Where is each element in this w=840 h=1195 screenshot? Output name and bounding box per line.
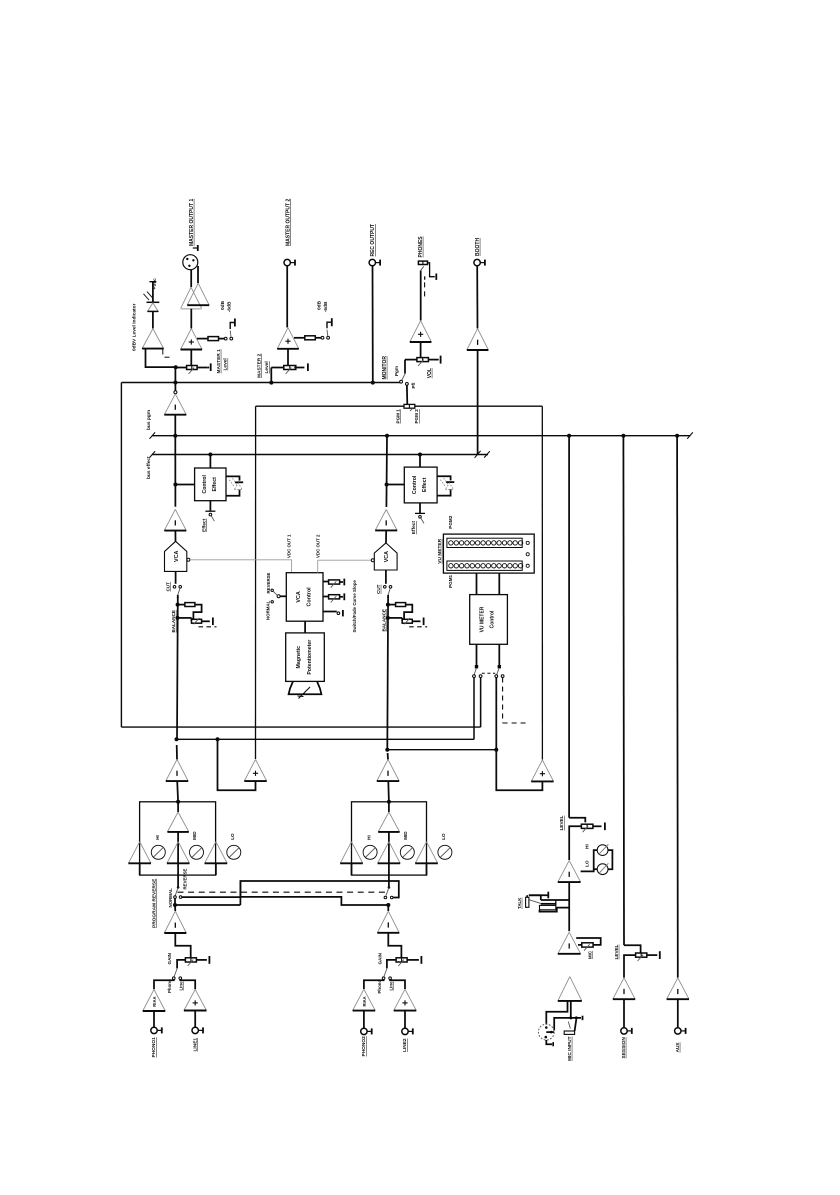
- svg-text:VDC OUT 1: VDC OUT 1: [287, 534, 292, 558]
- block Control Effect channel 2: [404, 467, 437, 503]
- jack SESSION input: [621, 1028, 627, 1034]
- bus effect horizontal line: [152, 454, 488, 456]
- wire gain to level pot master 2: [287, 349, 289, 366]
- trimmer fade curve 1: [323, 581, 329, 583]
- wire meter contact1 to ch1 tap: [473, 678, 475, 740]
- wire line branch ch1: [180, 980, 195, 990]
- jack LINE2: [402, 1028, 408, 1034]
- wire phono branch ch1: [154, 980, 174, 990]
- wire gain stage to level pot master 1: [190, 350, 192, 366]
- svg-text:bus effect: bus effect: [146, 456, 152, 479]
- jack booth output: [474, 259, 480, 265]
- svg-text:BALANCE: BALANCE: [381, 609, 386, 631]
- svg-text:0dB: 0dB: [220, 300, 226, 310]
- svg-text:Magnetic: Magnetic: [296, 646, 302, 669]
- svg-text:Effect: Effect: [201, 518, 207, 532]
- potentiometer GAIN channel 2: [396, 958, 407, 962]
- op-amp eq LO channel 2: [415, 842, 438, 864]
- switch program reverse channel 2: [388, 875, 390, 887]
- svg-text:HI: HI: [155, 835, 160, 840]
- wire VDC OUT 1 to VCA1: [190, 559, 292, 561]
- svg-text:HI: HI: [585, 844, 590, 849]
- svg-text:Effect: Effect: [212, 477, 218, 492]
- op-amp eq LO channel 1: [205, 842, 228, 864]
- LED D1 level indicator: [147, 301, 160, 303]
- wire VCA1 to cut switch: [175, 571, 177, 583]
- wire mic to talk switch: [568, 882, 570, 931]
- op-amp channel 2 post-VCA: [375, 510, 397, 531]
- svg-text:SESSION: SESSION: [621, 1037, 627, 1059]
- svg-text:LINE2: LINE2: [402, 1038, 408, 1052]
- VCA block channel 2: [374, 543, 397, 570]
- wire Pfl contact to pfl resistors: [406, 385, 408, 405]
- svg-text:PGM1: PGM1: [448, 574, 453, 587]
- node ch1 level tap on master bus: [173, 381, 177, 385]
- svg-text:PGM 2: PGM 2: [414, 409, 419, 424]
- wire phones amp to VOL pot: [420, 342, 422, 358]
- jack AUX input: [675, 1028, 681, 1034]
- switch Effect channel 2: [419, 503, 421, 513]
- op-amp headphone amp: [410, 321, 432, 342]
- jack LINE1: [192, 1027, 198, 1033]
- switch 0dB/-6dB master 2: [321, 336, 324, 339]
- led status dots: [526, 541, 529, 544]
- svg-text:Phono: Phono: [377, 980, 382, 994]
- wire channel1 strip mid: [176, 597, 179, 739]
- svg-text:GAIN: GAIN: [378, 952, 383, 964]
- svg-text:Control: Control: [307, 587, 313, 607]
- wire booth amp to effect bus: [477, 350, 479, 455]
- svg-text:CUT: CUT: [376, 584, 381, 594]
- program output bus (master) horizontal line: [121, 382, 400, 384]
- wire channel1 strip upper: [174, 436, 176, 507]
- node bus pgm x mic: [567, 434, 571, 438]
- op-amp eq MID channel 1: [167, 842, 190, 864]
- svg-text:VCA: VCA: [174, 551, 180, 562]
- svg-text:Effect: Effect: [422, 477, 428, 492]
- switch CUT channel 1: [173, 586, 176, 589]
- op-amp channel 2 fader sum: [377, 759, 399, 781]
- wires meter display to meter control: [476, 573, 478, 595]
- block VU METER led display: [443, 534, 534, 573]
- dashed wire meter contact4: [502, 678, 504, 724]
- svg-text:0dBV Level Indicator: 0dBV Level Indicator: [132, 303, 138, 351]
- svg-text:bus pgm: bus pgm: [146, 410, 152, 430]
- pot HI channel 1: [151, 845, 165, 859]
- led row PGM1: [447, 561, 522, 570]
- svg-text:LO: LO: [441, 833, 446, 840]
- wire phones pot to amp: [420, 271, 422, 321]
- pot MID channel 1: [190, 845, 204, 859]
- wire meter contact2 to master loop: [480, 678, 482, 728]
- op-amp aux buffer: [667, 978, 689, 999]
- opto LDR channel 1 effect: [226, 476, 240, 480]
- svg-text:Level: Level: [223, 358, 229, 370]
- svg-text:Line: Line: [179, 981, 184, 991]
- svg-text:Line: Line: [388, 981, 393, 991]
- svg-text:LEVEL: LEVEL: [614, 944, 619, 959]
- op-amp eq summing channel 2: [388, 802, 390, 812]
- svg-text:Control: Control: [202, 475, 208, 494]
- pot mic tone HI: [581, 850, 598, 871]
- pot LO channel 2: [438, 845, 452, 859]
- svg-text:Potentiometer: Potentiometer: [307, 640, 313, 675]
- switch mic pad: [568, 1022, 570, 1029]
- switch NORMAL/REVERSE crossfade: [280, 595, 286, 597]
- pot mic tone LO: [594, 868, 598, 870]
- wire mic pin2 loop: [546, 1031, 554, 1033]
- op-amp eq HI channel 2: [340, 842, 363, 864]
- svg-text:MASTER OUTPUT 2: MASTER OUTPUT 2: [286, 199, 292, 246]
- svg-text:Switch/Fade Curve Slope: Switch/Fade Curve Slope: [352, 579, 357, 632]
- trimmer mic gain: [576, 938, 601, 945]
- svg-text:BALANCE: BALANCE: [171, 610, 176, 632]
- op-amp booth buffer: [467, 329, 489, 350]
- wire VCA control to magnetic pot: [304, 621, 306, 633]
- node bus pgm x ch2: [385, 434, 389, 438]
- svg-text:BOOTH: BOOTH: [475, 238, 481, 256]
- svg-text:Pfl: Pfl: [411, 383, 416, 389]
- svg-text:VDC OUT 2: VDC OUT 2: [315, 534, 320, 558]
- op-amp pfl buffer channel 2: [531, 760, 553, 781]
- wire line branch ch2: [390, 980, 405, 989]
- resistor gain select master 2: [294, 337, 305, 339]
- op-amp mic gain stage: [558, 932, 581, 954]
- potentiometer BALANCE channel 2: [386, 603, 390, 607]
- op-amp eq HI channel 1: [128, 842, 151, 864]
- pot LO channel 1: [227, 845, 241, 859]
- block VCA Control: [286, 573, 323, 622]
- wire meter contact3 to ch2 tap / pfl2: [495, 678, 497, 791]
- svg-text:MASTER OUTPUT 1: MASTER OUTPUT 1: [189, 199, 195, 246]
- wire pfl line right drop to pfl2 amp: [541, 406, 543, 759]
- node ch1 eq top: [176, 800, 180, 804]
- svg-text:MIC INPUT: MIC INPUT: [567, 1036, 573, 1061]
- svg-text:LEVEL: LEVEL: [559, 815, 564, 830]
- op-amp channel 1 post-VCA: [164, 509, 186, 530]
- svg-text:MID: MID: [192, 831, 197, 840]
- svg-text:PHONES: PHONES: [418, 236, 424, 258]
- switch Phono/Line channel 1: [174, 969, 177, 977]
- block Magnetic Potentiometer: [286, 633, 325, 682]
- op-amp channel 1 fader sum: [166, 759, 188, 781]
- jack rec output: [369, 259, 375, 265]
- svg-text:PHONO2: PHONO2: [361, 1036, 367, 1057]
- left border wire of master loop: [120, 383, 122, 728]
- op-amp mic input preamp: [558, 977, 582, 1001]
- switch slope select: [323, 611, 337, 613]
- op-amp line input channel 2: [394, 989, 417, 1010]
- pot MID channel 2: [400, 845, 414, 859]
- wire channel2 strip upper: [385, 436, 388, 507]
- switch program reverse channel 1: [177, 875, 179, 887]
- svg-text:VCA: VCA: [384, 551, 390, 562]
- op-amp gain channel 2: [377, 911, 399, 933]
- switch Effect channel 1: [209, 501, 211, 511]
- crossover wire ch1 reverse contact: [182, 881, 399, 898]
- node bus pgm x session: [621, 434, 625, 438]
- svg-text:REC OUTPUT: REC OUTPUT: [370, 224, 376, 257]
- node master1 pot tap: [174, 365, 178, 369]
- svg-text:VOL: VOL: [427, 368, 433, 378]
- switch meter source select (ganged): [476, 644, 478, 665]
- wire CE1 to bus effect: [209, 455, 211, 469]
- switch monitor Pgm/Pfl: [404, 360, 406, 374]
- svg-text:PROGRAM REVERSE: PROGRAM REVERSE: [151, 878, 157, 928]
- svg-text:MIC: MIC: [587, 950, 592, 959]
- switch 0dB/-6dB master 1: [224, 337, 227, 340]
- op-amp mic tone stage: [558, 860, 581, 882]
- wire indicator to master1 node: [146, 349, 176, 368]
- VCA2 control port: [371, 559, 374, 562]
- svg-text:PGM2: PGM2: [448, 515, 453, 528]
- wire channel2 strip mid: [386, 597, 389, 750]
- svg-text:Pgm: Pgm: [394, 366, 399, 376]
- magnetic pot wiper bracket: [289, 681, 322, 694]
- svg-text:PHONO1: PHONO1: [151, 1037, 157, 1058]
- wire VDC OUT 2 to VCA2: [317, 560, 319, 573]
- resistor mic pad: [564, 1031, 574, 1034]
- op-amp session buffer: [613, 978, 635, 999]
- op-amp U1 balanced output driver master 1 (dual): [181, 287, 202, 308]
- crossover wire ch1 gain to ch2 reverse path: [175, 904, 240, 906]
- potentiometer GAIN channel 1: [185, 958, 196, 962]
- svg-text:Level: Level: [264, 361, 270, 373]
- potentiometer VOL: [417, 358, 429, 362]
- wire gain amp to gain pot ch1: [175, 933, 190, 958]
- dashed gang link program reverse: [178, 891, 387, 893]
- wire normal ch1 to gain amp: [174, 899, 176, 906]
- svg-text:GAIN: GAIN: [167, 952, 172, 964]
- potentiometer session LEVEL: [624, 945, 641, 953]
- wire ch1 pfl tap line: [177, 738, 475, 740]
- op-amp eq MID channel 2: [378, 842, 401, 864]
- svg-text:+Vcc: +Vcc: [152, 278, 158, 290]
- jack tick master output 1: [193, 247, 198, 249]
- wire ch2 pfl tap line: [387, 749, 496, 751]
- svg-text:RIAA: RIAA: [362, 996, 367, 1006]
- svg-text:CUT: CUT: [165, 582, 170, 592]
- wire pfl line left drop to pfl1 amp: [255, 406, 257, 759]
- pfl feed line between channels: [256, 405, 404, 407]
- svg-text:MONITOR: MONITOR: [382, 356, 388, 380]
- potentiometer BALANCE channel 1: [176, 603, 180, 607]
- op-amp gain channel 1: [164, 911, 186, 933]
- svg-text:VCA: VCA: [296, 591, 302, 602]
- op-amp RIAA preamp channel 1: [143, 989, 166, 1011]
- wire booth jack to amp: [476, 266, 478, 329]
- XLR connector master output 1: [183, 255, 198, 270]
- resistor gain select master 1: [197, 338, 208, 340]
- op-amp eq summing channel 1: [177, 802, 179, 812]
- svg-text:AUX: AUX: [675, 1042, 681, 1053]
- svg-text:HI: HI: [367, 835, 372, 840]
- node bus pgm x aux: [675, 434, 679, 438]
- svg-text:-6dB: -6dB: [227, 301, 233, 312]
- wire aux channel from bus pgm: [676, 436, 679, 978]
- XLR connector MIC INPUT: [538, 1024, 554, 1040]
- node ch2 pfl tap: [385, 748, 389, 752]
- bus pgm horizontal line: [152, 435, 691, 437]
- jack PHONO2: [361, 1028, 367, 1034]
- opto LDR channel 2 effect: [437, 476, 451, 480]
- dashed gang link phones pot: [424, 276, 426, 279]
- node ch2 to control effect: [385, 483, 389, 487]
- node bus pgm x ch1: [173, 434, 177, 438]
- switch Phono/Line channel 2: [384, 969, 387, 977]
- jack PHONO1: [151, 1027, 157, 1033]
- op-amp gain stage master 2: [277, 328, 299, 349]
- svg-text:NORMAL: NORMAL: [266, 600, 271, 620]
- svg-text:Effect: Effect: [411, 521, 417, 535]
- VCA block channel 1: [165, 541, 187, 571]
- trimmer fade curve 2: [323, 596, 329, 598]
- svg-text:MASTER 1: MASTER 1: [216, 349, 222, 374]
- svg-text:MASTER 2: MASTER 2: [256, 353, 262, 378]
- wire VCA2 to cut switch: [385, 570, 387, 584]
- pot HI channel 2: [363, 845, 377, 859]
- 0dBV level indicator +Vcc supply: [150, 281, 157, 283]
- svg-text:VU METER: VU METER: [437, 538, 443, 563]
- resistor talk attenuator: [555, 900, 557, 906]
- svg-text:RIAA: RIAA: [152, 996, 157, 1006]
- wires mic preamp to XLR: [546, 1001, 567, 1024]
- node ch1 pfl tap: [175, 737, 179, 741]
- svg-text:Control: Control: [490, 610, 496, 628]
- VCA1 control port: [187, 558, 190, 561]
- wire gain amp to gain pot ch2: [388, 933, 401, 958]
- led row PGM2: [447, 538, 522, 547]
- wire CE2 to bus effect: [419, 455, 421, 468]
- switch TALK mic: [541, 899, 569, 901]
- svg-text:PGM 1: PGM 1: [396, 409, 401, 424]
- svg-text:REVERSE: REVERSE: [183, 868, 188, 889]
- wire phono branch ch2: [364, 980, 384, 989]
- svg-text:TALK: TALK: [517, 897, 522, 909]
- potentiometer phones level: [418, 261, 427, 264]
- node bus effect x CE1: [208, 453, 212, 457]
- potentiometer P1 pfl mix (split): [404, 404, 415, 408]
- svg-text:LINE1: LINE1: [192, 1038, 198, 1052]
- wire to gain stage: [190, 309, 192, 329]
- op-amp level indicator driver: [142, 329, 164, 349]
- node ch1 to control effect: [173, 483, 177, 487]
- wire mic tone pots bracket: [608, 850, 612, 869]
- potentiometer MASTER 1 Level: [187, 366, 198, 370]
- svg-text:0dB: 0dB: [316, 300, 322, 310]
- svg-text:LO: LO: [585, 860, 590, 867]
- switch CUT channel 2: [384, 586, 387, 589]
- block Control Effect channel 1: [195, 468, 226, 501]
- EQ loop box channel 1: [140, 802, 216, 875]
- node master2 pot tap: [270, 368, 272, 383]
- wire rec output to program bus: [372, 266, 374, 383]
- svg-text:Control: Control: [412, 475, 418, 494]
- op-amp bus pgm summing amp: [174, 384, 176, 391]
- block VU METER Control: [470, 595, 508, 645]
- potentiometer mic LEVEL: [569, 818, 585, 823]
- svg-text:NORMAL: NORMAL: [168, 888, 173, 908]
- op-amp RIAA preamp channel 2: [353, 989, 376, 1010]
- bottom wire of master loop to meter switch: [121, 726, 480, 728]
- wire mic channel from bus pgm: [568, 436, 570, 818]
- EQ loop box channel 2: [352, 802, 427, 875]
- wire session channel from bus pgm: [622, 436, 625, 946]
- op-amp gain stage master 1: [181, 329, 203, 350]
- svg-text:REVERSE: REVERSE: [266, 572, 271, 593]
- op-amp line input channel 1: [184, 989, 207, 1010]
- op-amp pfl buffer channel 1: [244, 759, 266, 781]
- svg-text:-6dB: -6dB: [323, 301, 329, 312]
- node bus effect x CE2: [418, 453, 422, 457]
- svg-text:MID: MID: [403, 831, 408, 840]
- svg-text:LO: LO: [230, 833, 235, 840]
- potentiometer MASTER 2 Level: [284, 366, 296, 370]
- node ch2 eq top: [387, 800, 391, 804]
- jack master output 2: [284, 259, 290, 265]
- svg-text:VU METER: VU METER: [480, 606, 486, 632]
